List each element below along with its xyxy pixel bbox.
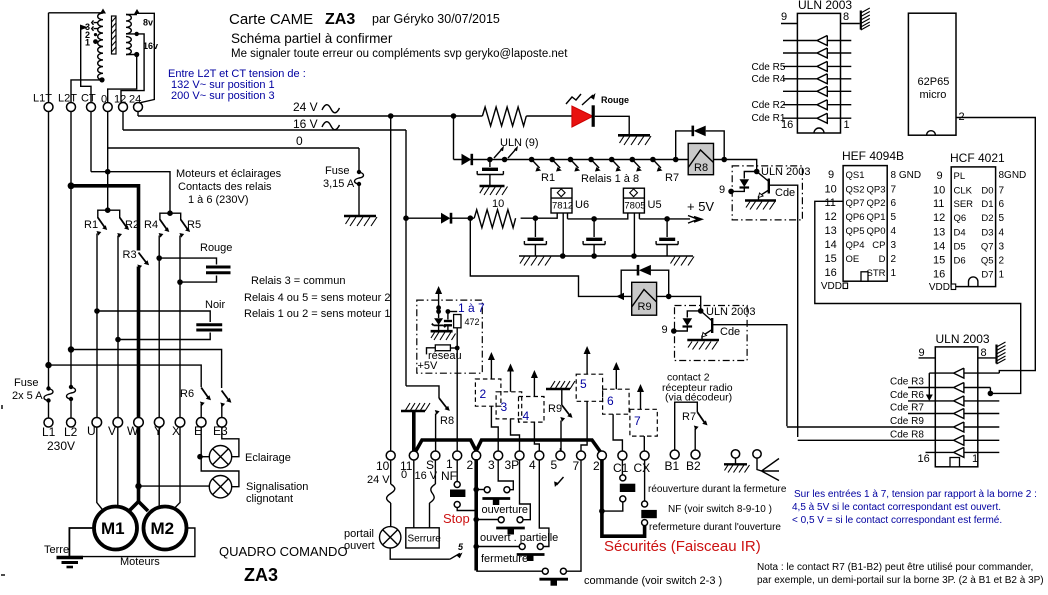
notch [814, 128, 824, 133]
notch HCF [969, 277, 978, 287]
node pin9 U-R8 [728, 189, 734, 195]
thick bus terminal 11 to 2 to 2 [415, 440, 601, 453]
terminal CX [640, 451, 649, 460]
dashed box 7 [630, 409, 657, 436]
base wire Cde U-R9 [712, 325, 787, 427]
svg-text:QS2: QS2 [846, 185, 865, 196]
transistor U-R9 [711, 318, 713, 333]
wire: 0 column continues down [107, 148, 109, 172]
arrow box7 [640, 390, 642, 409]
svg-text:8GND: 8GND [999, 170, 1027, 181]
terminal Y [154, 418, 164, 428]
secondary bottom wire to 0 [108, 55, 137, 103]
svg-text:L1: L1 [42, 425, 56, 439]
svg-text:Moteurs: Moteurs [120, 556, 160, 568]
wire: X to M2 [172, 427, 180, 511]
svg-text:clignotant: clignotant [246, 493, 293, 505]
svg-text:Terre: Terre [44, 544, 69, 556]
svg-text:7805: 7805 [624, 201, 645, 212]
node input cap [533, 215, 539, 221]
transformer secondary 8V winding [126, 15, 131, 34]
fuse 2x5A L2 [69, 385, 73, 389]
wire: CT column down [90, 112, 92, 172]
svg-text:Cde R7: Cde R7 [890, 403, 924, 414]
svg-text:SER: SER [954, 199, 974, 210]
arrow box6 [615, 368, 617, 389]
terminal 2 [472, 451, 481, 460]
svg-text:C1: C1 [613, 461, 629, 475]
wire box4 to terminal 4 [534, 422, 539, 451]
button NF stop (terminal 1) [456, 460, 458, 482]
wire: U to M1 [97, 427, 104, 512]
wire: relais line [454, 159, 689, 161]
svg-text:14: 14 [933, 241, 945, 253]
motor M1 [94, 507, 137, 550]
node 2 [502, 157, 508, 163]
terminal 5 [556, 451, 565, 460]
wire bracket R1/R2 [98, 210, 120, 218]
svg-text:QP0: QP0 [866, 226, 885, 237]
wire box6 to terminal C1 [613, 414, 622, 451]
svg-text:V: V [108, 424, 116, 438]
wire: 16V rail [123, 129, 406, 131]
terminal X [175, 418, 185, 428]
svg-text:3: 3 [501, 400, 508, 414]
junction L1T signalisation line [45, 362, 51, 368]
wire: HEF pin11 long route [815, 201, 1021, 393]
sine 16V [322, 122, 340, 130]
LED Rouge [572, 106, 593, 127]
svg-text:STR: STR [867, 268, 886, 279]
svg-text:5: 5 [458, 542, 464, 552]
wire: 5 to R9 contact [559, 448, 561, 451]
lamp portail ouvert [380, 527, 401, 548]
terminal L2 [67, 418, 76, 427]
arrow box4 [533, 376, 535, 397]
svg-text:(via décodeur): (via décodeur) [665, 392, 732, 404]
svg-text:0: 0 [401, 469, 407, 481]
svg-text:fermeture: fermeture [481, 553, 528, 565]
svg-text:QP4: QP4 [846, 240, 865, 251]
svg-text:Cde R8: Cde R8 [890, 430, 924, 441]
svg-text:7: 7 [891, 185, 897, 196]
svg-text:Stop: Stop [443, 511, 470, 526]
terminal 12 [119, 103, 128, 112]
wire: CT line right to R4/R5 [91, 172, 170, 212]
svg-text:12: 12 [114, 94, 126, 106]
notch ULN3 (square) [950, 458, 960, 467]
svg-text:Q6: Q6 [954, 213, 967, 224]
svg-text:Cde: Cde [775, 187, 795, 199]
svg-text:D4: D4 [954, 228, 966, 239]
svg-text:12: 12 [933, 212, 945, 224]
button C1 reouverture [621, 460, 623, 475]
lamp Eclairage [201, 456, 209, 458]
ground 1a7 [431, 330, 453, 333]
svg-text:7: 7 [999, 186, 1005, 197]
svg-text:2: 2 [999, 256, 1005, 267]
svg-text:+5V: +5V [418, 360, 439, 372]
diode on relais line [462, 154, 472, 165]
svg-text:3: 3 [488, 458, 495, 472]
svg-text:5: 5 [551, 458, 558, 472]
svg-text:Serrure: Serrure [408, 534, 442, 545]
svg-text:472: 472 [465, 317, 480, 327]
node collector U-R8 [754, 169, 760, 175]
arrow box5 [586, 352, 588, 374]
node cap U5 out [664, 216, 670, 222]
motor M2 [144, 507, 187, 550]
svg-text:R7: R7 [682, 411, 696, 423]
terminal CT [87, 103, 96, 112]
svg-text:7812: 7812 [552, 201, 573, 212]
wire: lamp to arrow 5 [390, 548, 450, 559]
svg-text:commande (voir switch 2-3 ): commande (voir switch 2-3 ) [584, 575, 722, 587]
svg-text:L2T: L2T [58, 93, 77, 105]
relay contact R3 on thick wire [139, 253, 147, 263]
svg-text:Cde R2: Cde R2 [752, 100, 786, 111]
dashed box 1 a 7 [417, 300, 483, 373]
IC 62P65 micro [908, 13, 956, 135]
terminal U [92, 418, 102, 428]
svg-text:D6: D6 [954, 256, 966, 267]
svg-text:D0: D0 [981, 186, 993, 197]
svg-text:Fuse: Fuse [325, 165, 349, 177]
wire: V to M1 [117, 427, 119, 507]
svg-text:10: 10 [492, 198, 504, 210]
svg-text:Moteurs et éclairages: Moteurs et éclairages [176, 168, 282, 180]
svg-text:2x 5 A: 2x 5 A [12, 390, 43, 402]
dashed box 4 [519, 397, 545, 423]
svg-text:8 GND: 8 GND [891, 170, 922, 181]
relay contact R8 with 16V feed [406, 386, 439, 398]
svg-text:9: 9 [828, 169, 834, 181]
dashed box 5 [576, 374, 602, 401]
base wire Cde [769, 185, 798, 437]
junction 24V at terminal-10 column [388, 113, 394, 119]
terminal E [196, 418, 206, 428]
svg-text:Cde R6: Cde R6 [890, 390, 924, 401]
wire up with arrow (to ULN input) [438, 292, 440, 312]
wire: 24 terminal down to 24V rail [137, 112, 139, 117]
relay contact R1 [98, 218, 105, 228]
diode U-R9 [687, 311, 700, 318]
svg-text:R7: R7 [665, 172, 679, 184]
transformer T1 primary winding [98, 13, 103, 80]
svg-text:3,15 A: 3,15 A [323, 178, 355, 190]
wire box2 to terminal 3 [491, 406, 498, 451]
button commande [476, 570, 542, 572]
svg-text:16: 16 [918, 453, 930, 465]
box Serrure [406, 528, 439, 548]
svg-text:ULN 2003: ULN 2003 [761, 166, 811, 178]
svg-text:8: 8 [843, 11, 849, 23]
svg-text:15: 15 [933, 255, 945, 267]
ground rail [519, 255, 693, 257]
svg-text:6: 6 [999, 199, 1005, 210]
dashed box ULN driver R8 [732, 166, 802, 220]
terminal B1 [670, 450, 679, 459]
svg-text:Rouge: Rouge [601, 95, 629, 105]
junction 16V column to rectifier [403, 215, 409, 221]
svg-text:Relais 1 à 8: Relais 1 à 8 [581, 173, 639, 185]
inverted ground at terminal 11 [401, 403, 430, 411]
wire: L1T to R6 contact [49, 365, 202, 387]
terminal 24 [134, 103, 143, 112]
ground U-R9 [687, 339, 719, 342]
terminal E3 [217, 418, 227, 428]
svg-text:16: 16 [933, 269, 945, 281]
terminal 10 [386, 451, 395, 460]
svg-text:9: 9 [662, 324, 668, 336]
thick wire: W column down [137, 427, 141, 501]
terminal 2b [597, 451, 606, 460]
svg-text:Me signaler toute erreur ou co: Me signaler toute erreur ou compléments … [231, 48, 568, 60]
thick wire terminal 2b common [602, 459, 645, 536]
svg-text:2: 2 [593, 459, 600, 473]
svg-text:D3: D3 [981, 228, 993, 239]
svg-text:R8: R8 [694, 162, 708, 174]
thick wire R3 to W [137, 267, 141, 419]
svg-text:Y: Y [154, 424, 162, 438]
svg-text:Sécurités (Faisceau IR): Sécurités (Faisceau IR) [604, 538, 761, 555]
wire: LED to ground [595, 116, 629, 134]
svg-text:ULN 2003: ULN 2003 [936, 332, 990, 346]
wire: S to serrure with sine [430, 460, 436, 528]
svg-text:13: 13 [933, 227, 945, 239]
wire to diode [406, 217, 441, 219]
wire: L1T column [48, 13, 50, 387]
tap arrow 3 [80, 25, 88, 31]
wire: E continues to signalisation right [201, 457, 239, 487]
svg-text:Carte CAME: Carte CAME [229, 11, 313, 28]
svg-text:Cde R3: Cde R3 [890, 377, 924, 388]
svg-text:NF (voir switch 8-9-10 ): NF (voir switch 8-9-10 ) [668, 504, 772, 515]
svg-text:R6: R6 [180, 388, 194, 400]
svg-text:Cde R5: Cde R5 [752, 62, 786, 73]
wire: 24V column down to terminal 10 [390, 116, 392, 451]
tap dot 2 [94, 33, 97, 36]
svg-text:PL: PL [954, 171, 966, 182]
wire: 10 to portail lamp with sine [390, 460, 392, 527]
diode across R9 [621, 270, 637, 296]
zener diode [438, 312, 440, 319]
button ouverture [476, 489, 484, 491]
arrow box3 [510, 370, 512, 392]
svg-text:R8: R8 [440, 415, 454, 427]
svg-text:1: 1 [844, 119, 850, 131]
svg-text:+ 5V: + 5V [687, 199, 714, 214]
svg-text:ouverture: ouverture [482, 504, 528, 516]
svg-text:Q7: Q7 [981, 242, 994, 253]
U5 pins [634, 213, 639, 256]
wire: L2T column down [70, 112, 72, 388]
node after diode [468, 215, 474, 221]
svg-text:R1: R1 [84, 219, 98, 231]
svg-text:R9: R9 [548, 403, 562, 415]
svg-text:Sur les entrées 1 à 7, tension: Sur les entrées 1 à 7, tension par rappo… [794, 489, 1037, 500]
ground flag pin8 [860, 11, 862, 30]
wire: R9 right [657, 296, 701, 311]
svg-text:X: X [172, 424, 180, 438]
svg-text:Cde R9: Cde R9 [890, 416, 924, 427]
svg-text:11: 11 [825, 197, 836, 209]
svg-text:QP3: QP3 [866, 185, 885, 196]
svg-text:230V: 230V [47, 439, 75, 453]
node R8 left [673, 157, 679, 163]
node secondary mid [135, 32, 139, 36]
svg-text:R3: R3 [123, 249, 137, 261]
notch micro [927, 131, 936, 136]
wire: secondary top to 24 terminal [126, 13, 154, 107]
svg-text:12: 12 [825, 211, 837, 223]
svg-text:refermeture durant l'ouverture: refermeture durant l'ouverture [649, 522, 781, 533]
antenna [753, 450, 761, 458]
svg-text:B2: B2 [686, 459, 701, 473]
svg-text:9: 9 [781, 11, 787, 23]
svg-text:QP6: QP6 [846, 212, 865, 223]
svg-text:Q5: Q5 [981, 256, 994, 267]
wire: 0 rail to fuse [358, 148, 360, 171]
node zener top [436, 305, 441, 310]
svg-text:ouvert: ouvert [344, 540, 375, 552]
wire: 0 terminal down [107, 112, 109, 149]
dashed box ULN driver R9 [675, 306, 748, 361]
regulator U6 7812 [551, 188, 572, 213]
svg-text:0: 0 [101, 94, 107, 106]
svg-text:E3: E3 [213, 424, 228, 438]
wire bracket R4/R5 [160, 213, 181, 220]
svg-text:16 V: 16 V [415, 470, 438, 482]
svg-text:U5: U5 [648, 199, 662, 211]
svg-text:1: 1 [972, 453, 978, 465]
diode U-R8 [744, 172, 756, 179]
svg-text:réouverture durant la fermetur: réouverture durant la fermeture [648, 484, 787, 495]
terminal V [113, 418, 123, 428]
wire: micro pin2 to ULN3 [956, 118, 1035, 374]
wire: R5 to X [179, 236, 181, 419]
dashed box 3 [496, 392, 522, 419]
svg-text:ouvert . partielle: ouvert . partielle [480, 532, 558, 544]
transformer secondary 16V winding [126, 37, 131, 55]
svg-text:4: 4 [999, 228, 1005, 239]
svg-text:8v: 8v [143, 18, 153, 28]
lamp Signalisation [209, 476, 231, 498]
svg-text:Noir: Noir [205, 299, 226, 311]
junction 0/CT [105, 169, 111, 175]
svg-text:ZA3: ZA3 [325, 11, 355, 28]
svg-text:QUADRO COMANDO: QUADRO COMANDO [219, 544, 348, 559]
terminal S [431, 451, 440, 460]
wire: 12 terminal down to 16V rail [122, 112, 124, 131]
diode across R8 [676, 131, 693, 160]
wire: B1 up and bracket to R7 [675, 402, 698, 450]
terminal 11 [409, 451, 418, 460]
svg-text:Cde: Cde [720, 326, 740, 338]
svg-text:D2: D2 [981, 213, 993, 224]
ground U-R8 [745, 199, 776, 202]
svg-text:D5: D5 [954, 242, 966, 253]
svg-text:Nota : le contact R7 (B1-B2) p: Nota : le contact R7 (B1-B2) peut être u… [757, 562, 1033, 573]
svg-text:ULN (9): ULN (9) [500, 137, 539, 149]
node cap [487, 157, 493, 163]
svg-text:1 à 7: 1 à 7 [458, 301, 485, 315]
wire: 24V rail [138, 115, 482, 117]
wire: 11 to serrure [413, 460, 415, 528]
svg-text:< 0,5 V = si le contact corres: < 0,5 V = si le contact correspondant es… [792, 515, 1002, 526]
capacitor 1a7 [447, 312, 449, 320]
stray mark left margin [1, 405, 3, 409]
wire: M1 to Terre [69, 528, 94, 557]
resistor 472 [448, 311, 457, 313]
svg-text:D7: D7 [981, 270, 993, 281]
svg-text:4: 4 [523, 409, 530, 423]
svg-text:QP1: QP1 [866, 212, 885, 223]
svg-text:OE: OE [846, 254, 860, 265]
svg-text:16: 16 [825, 267, 837, 279]
capacitor U5 out [666, 219, 668, 237]
svg-text:24 V: 24 V [293, 100, 318, 114]
svg-text:4,5 à 5V si le contact corresp: 4,5 à 5V si le contact correspondant est… [792, 502, 1001, 513]
transistor U-R8 [768, 179, 770, 194]
wire box3 to terminal 3P [511, 419, 520, 451]
relais dots and arrows R1..R8 [529, 157, 535, 163]
arrow secondary top [134, 9, 140, 14]
junction L2T thick [68, 182, 75, 189]
svg-text:15: 15 [825, 253, 837, 265]
svg-text:11: 11 [933, 198, 944, 210]
svg-text:CLK: CLK [954, 186, 973, 197]
dashed box 6 [603, 389, 630, 414]
terminal 7 [577, 451, 586, 460]
ground LED [618, 134, 650, 137]
svg-text:HEF 4094B: HEF 4094B [842, 149, 904, 163]
capacitor (relais line filter) [489, 160, 491, 168]
wire: L1T to primary top [49, 12, 104, 14]
svg-text:ULN 2003: ULN 2003 [706, 306, 756, 318]
svg-text:4: 4 [891, 226, 897, 237]
thick wire L2T to R3 column [71, 186, 139, 251]
wire: M2 to ground bottom [69, 528, 194, 557]
svg-text:7: 7 [573, 459, 580, 473]
junction W signalisation [135, 483, 141, 489]
terminal 0 [103, 103, 112, 112]
svg-text:M1: M1 [101, 519, 125, 538]
svg-text:L1T: L1T [33, 93, 52, 105]
terminal 3 [494, 451, 503, 460]
terminal L1 [44, 418, 53, 427]
svg-text:4: 4 [529, 458, 536, 472]
svg-text:D: D [879, 254, 886, 265]
node R1/R2 common [105, 207, 111, 213]
svg-text:6: 6 [891, 198, 897, 209]
svg-text:QP7: QP7 [846, 198, 865, 209]
U6 pins [557, 213, 567, 256]
svg-text:B1: B1 [665, 459, 680, 473]
svg-text:9: 9 [719, 184, 725, 196]
arrow box2 [490, 358, 492, 379]
thick wire: terminal 2 common column [474, 459, 478, 571]
svg-text:QP2: QP2 [866, 198, 885, 209]
wire box7 to terminal CX [643, 436, 645, 451]
tap tick top [92, 20, 98, 24]
node pin9 U-R9 [671, 328, 677, 334]
svg-text:Cde R1: Cde R1 [752, 113, 786, 124]
ground Terre [57, 556, 84, 559]
resistor reseau [455, 346, 460, 351]
ULN1 inverter rows [783, 36, 851, 46]
tap selector wire to CT [81, 27, 91, 102]
